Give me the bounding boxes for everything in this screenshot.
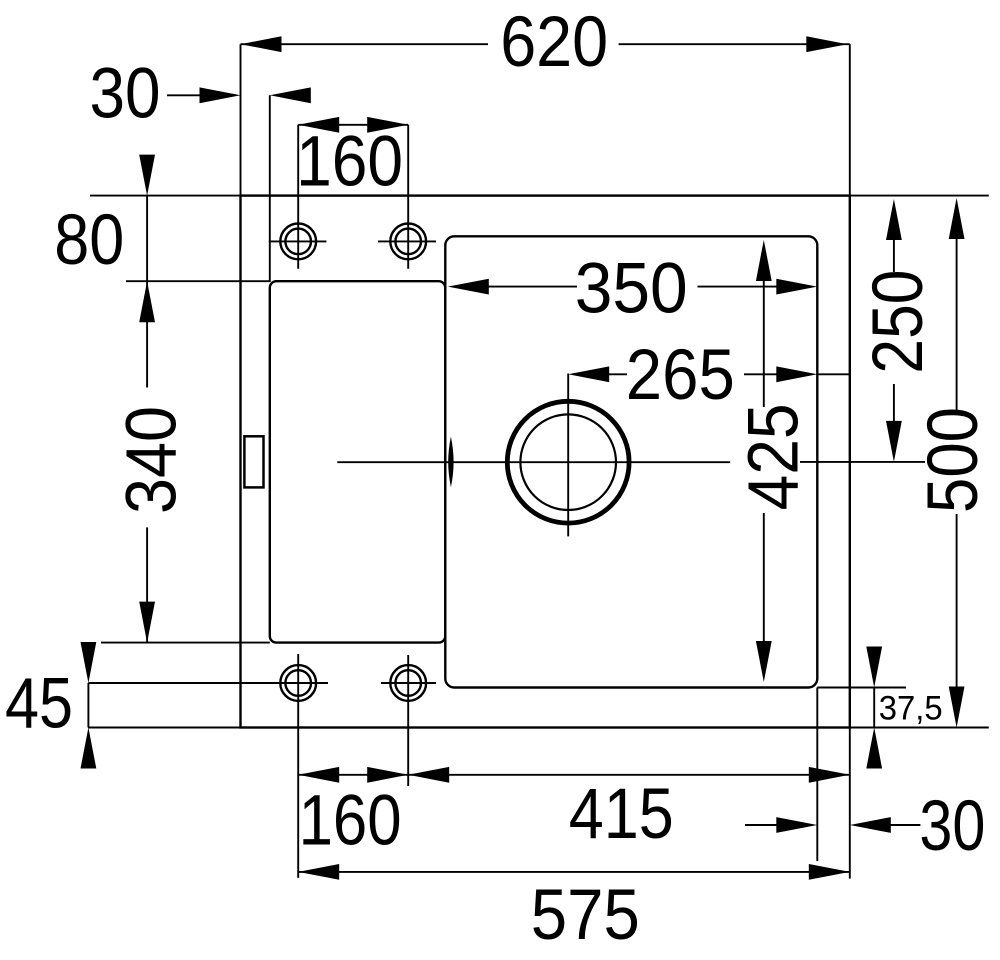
svg-text:160: 160 [299,782,402,861]
svg-text:30: 30 [90,55,161,134]
svg-text:425: 425 [735,403,814,510]
svg-text:250: 250 [859,270,938,374]
svg-text:160: 160 [296,123,403,202]
svg-text:80: 80 [54,201,124,280]
svg-text:340: 340 [112,406,191,514]
svg-text:265: 265 [626,336,735,415]
svg-text:620: 620 [500,3,608,82]
svg-text:350: 350 [575,250,688,329]
svg-text:30: 30 [919,787,985,866]
svg-text:500: 500 [914,407,993,513]
svg-text:415: 415 [569,775,674,854]
svg-text:575: 575 [531,876,640,955]
svg-text:45: 45 [5,664,73,743]
svg-text:37,5: 37,5 [879,690,943,728]
